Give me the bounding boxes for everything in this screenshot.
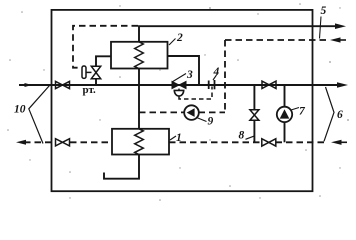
mixing pump 7 riser — [284, 85, 286, 107]
pipe: dashed sensor line top-left — [73, 26, 138, 68]
impulse dashed line valve3 to orifice4 — [179, 87, 212, 100]
outer boundary box — [52, 10, 313, 191]
valve 8 (hourglass) — [250, 110, 259, 121]
bracket label 6 — [324, 87, 334, 141]
pipe PT valve bottom to main — [95, 79, 97, 85]
pipe PT valve top to HE2 — [96, 56, 111, 66]
label 9 — [197, 118, 207, 122]
orifice 4 (two bars) — [208, 81, 210, 90]
pump 7 — [277, 107, 292, 122]
valve supply right — [262, 81, 276, 88]
control valve 3 (filled bowtie) — [172, 81, 186, 88]
valve return left — [56, 139, 70, 146]
heat exchanger 1 — [112, 129, 169, 155]
heat exchanger 2 — [111, 42, 168, 69]
arrow return inlet right — [331, 140, 342, 145]
actuator dome of valve 3 — [178, 89, 180, 91]
label 2 — [169, 39, 176, 46]
dashed top-right return pipe — [225, 39, 327, 41]
svg-text:8: 8 — [239, 130, 245, 142]
drain pipe below HE1 — [104, 155, 139, 179]
arrow on supply inlet — [25, 83, 33, 87]
svg-text:6: 6 — [337, 109, 343, 121]
svg-text:2: 2 — [176, 32, 183, 44]
pipe: secondary hot outlet (top solid) — [139, 26, 337, 42]
dashed pump 9 line — [139, 111, 185, 113]
label 1 — [170, 136, 176, 140]
svg-text:10: 10 — [14, 104, 26, 116]
speckle noise — [7, 3, 349, 201]
bracket label 10 — [29, 86, 50, 144]
arrow return outlet left — [16, 140, 26, 145]
pipe: main supply line — [19, 84, 340, 86]
label 4 — [213, 75, 217, 80]
svg-text:5: 5 — [321, 5, 327, 17]
pump 9 — [184, 105, 199, 120]
arrow top outlet — [335, 23, 346, 29]
temperature sensor capsule — [82, 66, 86, 78]
arrow supply outlet right — [337, 82, 348, 88]
valve supply left — [56, 81, 70, 88]
svg-text:4: 4 — [213, 66, 220, 78]
pipe HE2 right to main line — [168, 56, 200, 85]
svg-text:рт.: рт. — [83, 84, 97, 96]
svg-text:3: 3 — [186, 69, 193, 81]
central riser HE2 to HE1 — [138, 69, 140, 129]
regulator valve PT (hourglass) — [91, 66, 100, 78]
label 8 — [246, 136, 254, 139]
label 7 — [291, 108, 299, 111]
valve return right — [262, 139, 276, 146]
label 5 — [320, 17, 322, 39]
arrow on top-right dashed pipe — [330, 37, 341, 42]
svg-text:9: 9 — [208, 116, 214, 128]
bypass riser with valve 8 — [253, 85, 255, 110]
pipe: return line dashed — [24, 141, 55, 143]
label 3 — [172, 74, 186, 83]
dashed return riser — [224, 40, 226, 112]
